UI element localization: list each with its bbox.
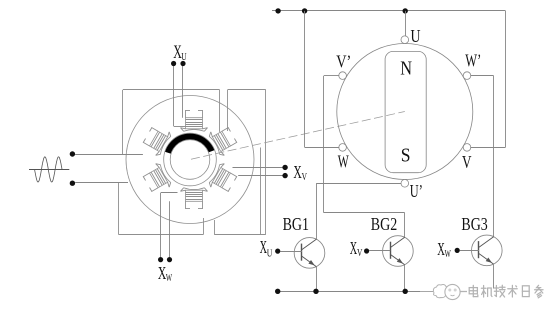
- label X_W (BG3): [437, 239, 451, 260]
- transistor BG2: [383, 236, 414, 267]
- stator pole lower-left: [140, 162, 172, 196]
- label X_V (BG2): [350, 238, 363, 259]
- svg-text:U’: U’: [410, 181, 423, 201]
- wire: source to stator bottom: [75, 182, 128, 184]
- wire: W&#8217; to BG3 collector: [470, 76, 493, 237]
- wire: coil leads upper-right pole: [220, 90, 228, 132]
- svg-text:BG1: BG1: [283, 214, 309, 234]
- stator pole upper-right: [208, 123, 240, 157]
- wire: BG2 base lead: [369, 250, 390, 252]
- svg-text:U: U: [411, 26, 421, 46]
- terminal dot X_V (BG2 base): [364, 248, 369, 253]
- top supply rail: [272, 10, 506, 12]
- stator outer circle: [126, 96, 254, 224]
- svg-text:W: W: [445, 249, 451, 260]
- magnet N-S bar: [385, 51, 426, 172]
- stator pole upper-left: [140, 123, 172, 157]
- svg-text:U: U: [181, 52, 187, 63]
- bottom supply rail: [278, 291, 433, 293]
- stator yoke frame: [119, 90, 266, 235]
- AC source axis line: [29, 169, 69, 171]
- watermark logo doodle: [420, 284, 467, 299]
- wire: BG1 emitter down: [316, 267, 318, 292]
- wire: BG1 base lead: [280, 251, 302, 253]
- label X_V (stator right): [293, 162, 307, 183]
- wire: BG2 emitter down: [404, 265, 406, 292]
- terminal dots X_V: [282, 165, 287, 179]
- svg-text:N: N: [400, 59, 412, 80]
- svg-text:W: W: [338, 151, 349, 171]
- terminal dots X_W: [158, 257, 172, 262]
- AC source sine wave: [35, 157, 62, 182]
- terminal dots X_U: [171, 61, 186, 66]
- svg-text:BG2: BG2: [371, 214, 397, 234]
- wire: rail down to W terminal: [305, 11, 340, 148]
- transistor BG3: [472, 235, 503, 266]
- watermark text 电机技术日参: [469, 285, 543, 298]
- label X_U (stator top): [173, 42, 187, 63]
- terminal dot X_U (BG1 base): [275, 249, 280, 254]
- label X_U (BG1): [260, 237, 273, 259]
- wire: rail to U terminal: [405, 11, 407, 36]
- svg-text:X: X: [293, 162, 301, 182]
- stator pole bottom (W winding): [181, 188, 208, 209]
- svg-text:W: W: [166, 273, 172, 284]
- svg-text:V: V: [357, 248, 363, 259]
- stator pole top (U winding): [181, 110, 208, 131]
- wire: U&#8217; to BG1 collector: [316, 183, 401, 239]
- wire: BG3 emitter down: [493, 264, 495, 289]
- junction dots bottom rail: [275, 289, 408, 294]
- wire: source to stator top: [75, 154, 143, 156]
- label X_W (stator bottom): [158, 263, 172, 284]
- wire: V&#8217; to BG2 collector: [324, 76, 405, 238]
- rotor circles: [164, 133, 217, 186]
- svg-text:S: S: [401, 145, 411, 166]
- wire: X_U leads: [174, 66, 186, 127]
- sensor rotor circle: [337, 44, 473, 180]
- svg-text:BG3: BG3: [461, 214, 487, 234]
- sensor terminal circles: [339, 36, 471, 187]
- wire: rail down to V terminal: [470, 11, 505, 148]
- svg-text:V: V: [462, 152, 472, 172]
- AC source terminal dots: [70, 151, 75, 186]
- terminal dot X_W (BG3 base): [455, 248, 460, 253]
- rotor magnet black arc: [165, 133, 215, 154]
- dashed link stator center to sensor rotor: [191, 112, 405, 160]
- transistor BG1: [294, 238, 325, 269]
- svg-text:V: V: [302, 172, 308, 183]
- svg-text:V’: V’: [336, 51, 351, 71]
- svg-text:W’: W’: [465, 51, 481, 71]
- wire: X_W leads: [161, 193, 178, 258]
- svg-text:U: U: [267, 248, 273, 259]
- wire: X_V leads: [233, 168, 283, 176]
- wire: BG3 base lead: [460, 250, 479, 252]
- stator pole lower-right (V winding): [208, 162, 240, 196]
- junction dots top rail: [275, 8, 408, 13]
